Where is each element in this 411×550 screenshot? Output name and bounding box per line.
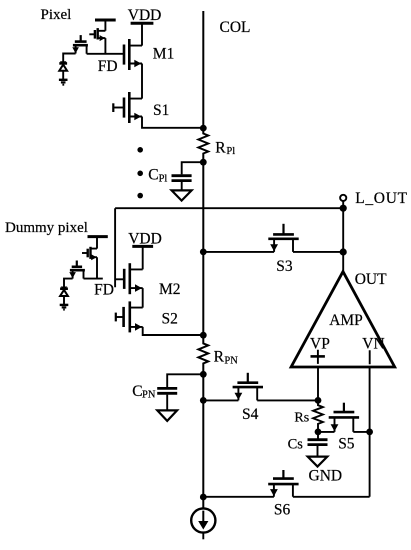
svg-text:PN: PN [142,389,156,400]
svg-text:R: R [215,139,226,156]
svg-text:Dummy pixel: Dummy pixel [5,220,88,236]
svg-text:FD: FD [98,58,118,75]
svg-text:Pixel: Pixel [41,7,72,23]
svg-text:Rs: Rs [294,410,309,425]
svg-text:VDD: VDD [128,7,162,24]
svg-text:VP: VP [310,336,330,353]
svg-text:S2: S2 [162,310,178,327]
svg-text:VDD: VDD [128,230,162,247]
svg-text:C: C [148,167,158,184]
svg-text:M2: M2 [159,281,181,298]
svg-text:S3: S3 [276,258,293,275]
svg-text:L_OUT: L_OUT [355,190,408,207]
svg-text:VN: VN [362,336,384,353]
svg-text:Pl: Pl [226,146,235,157]
svg-text:COL: COL [220,19,251,36]
svg-text:Cs: Cs [288,436,304,452]
svg-text:S6: S6 [274,502,291,519]
svg-text:M1: M1 [153,45,175,62]
svg-text:PN: PN [224,356,238,367]
svg-text:OUT: OUT [355,271,387,288]
svg-text:AMP: AMP [329,312,363,329]
svg-text:R: R [214,348,225,365]
svg-text:FD: FD [94,281,114,298]
svg-text:Pl: Pl [159,174,168,185]
svg-text:GND: GND [309,468,343,485]
svg-text:S5: S5 [338,435,355,452]
svg-text:S1: S1 [153,102,169,119]
svg-text:S4: S4 [242,406,259,423]
